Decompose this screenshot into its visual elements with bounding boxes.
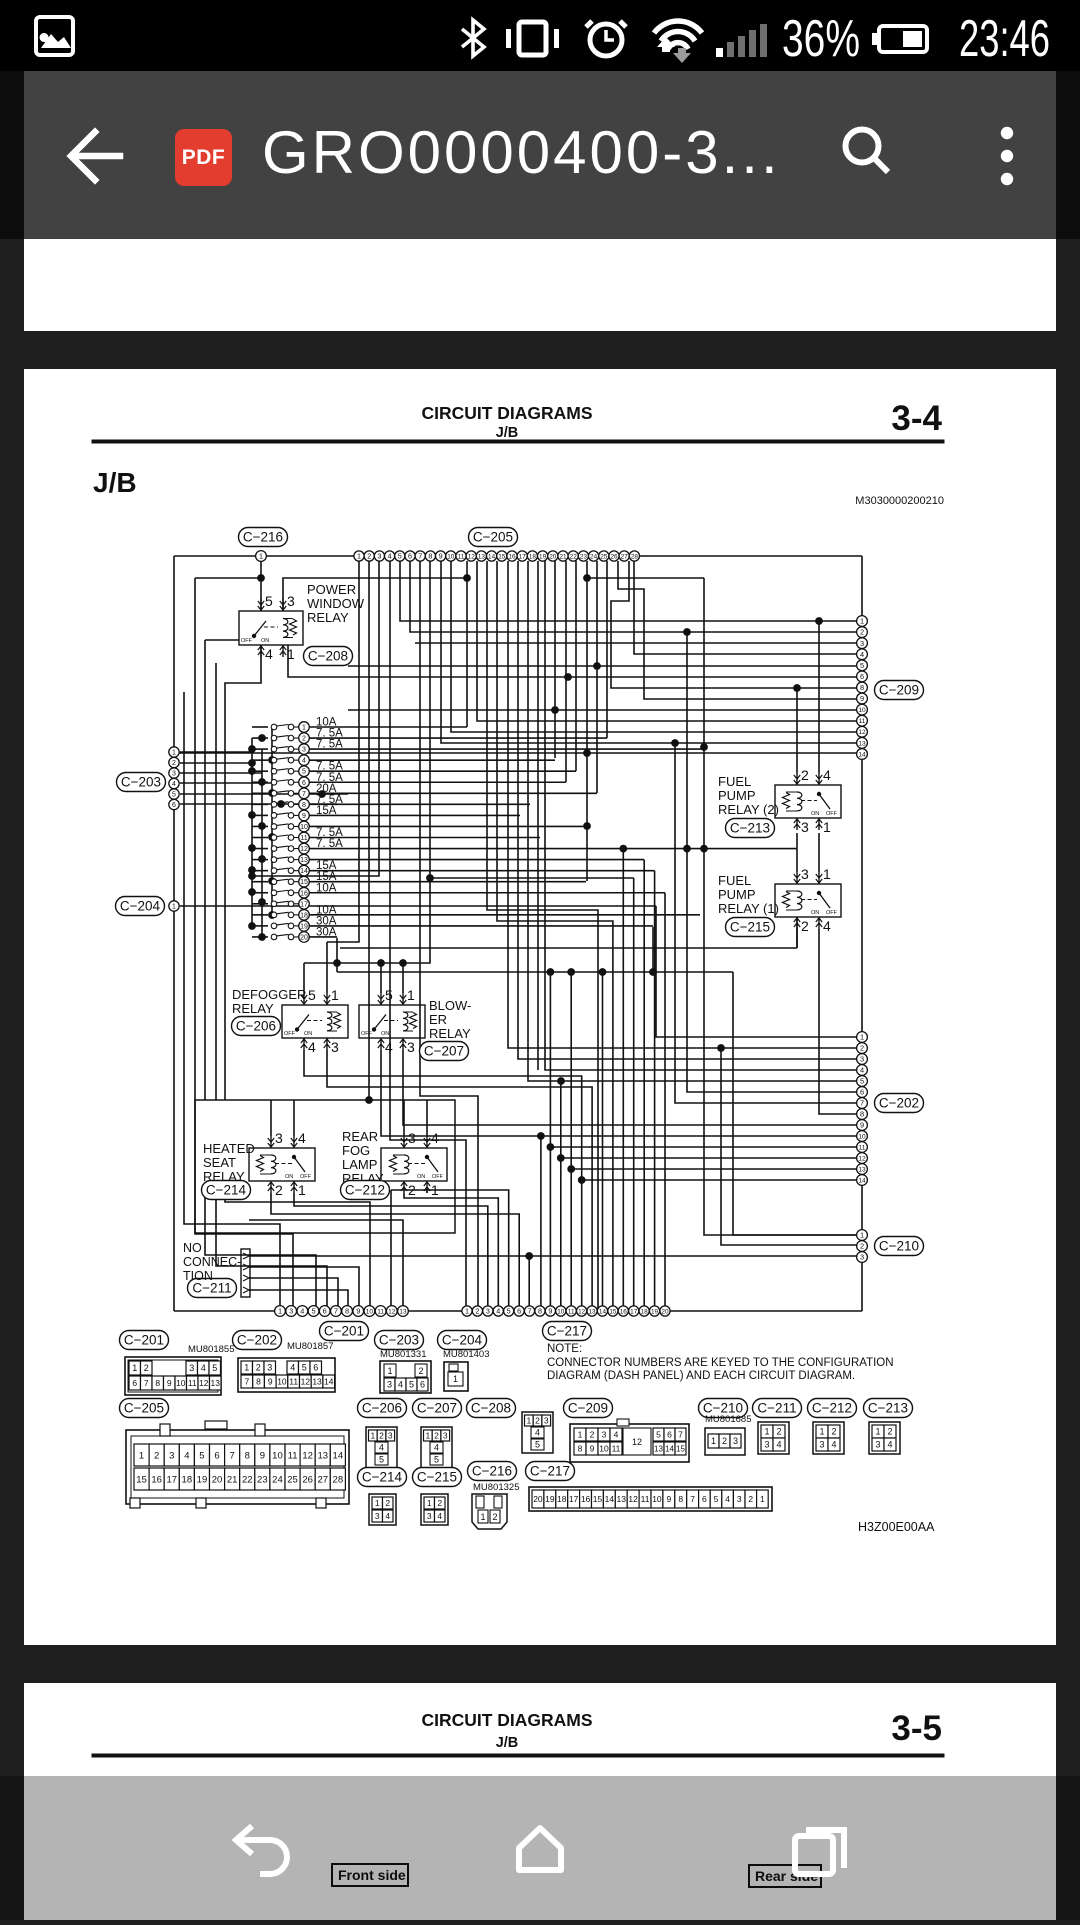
svg-text:CONNECTOR NUMBERS ARE KEYED TO: CONNECTOR NUMBERS ARE KEYED TO THE CONFI…	[547, 1357, 894, 1369]
svg-text:MU801325: MU801325	[473, 1482, 519, 1493]
svg-text:CIRCUIT DIAGRAMS: CIRCUIT DIAGRAMS	[421, 403, 592, 423]
svg-text:C−206: C−206	[236, 1019, 276, 1034]
svg-text:17: 17	[166, 1474, 177, 1485]
svg-text:OFF: OFF	[826, 910, 838, 916]
svg-text:8: 8	[302, 802, 306, 809]
svg-text:8: 8	[428, 552, 432, 561]
svg-text:4: 4	[860, 1066, 864, 1075]
svg-text:15: 15	[593, 1494, 603, 1504]
svg-text:10: 10	[300, 824, 308, 831]
svg-text:10: 10	[447, 553, 455, 560]
svg-text:13: 13	[858, 740, 866, 747]
svg-text:C−217: C−217	[530, 1464, 570, 1479]
svg-text:13: 13	[617, 1494, 627, 1504]
svg-text:4: 4	[887, 1440, 892, 1450]
svg-text:1: 1	[357, 552, 361, 561]
svg-text:24: 24	[272, 1474, 283, 1485]
svg-text:11: 11	[641, 1494, 650, 1504]
svg-text:2: 2	[801, 767, 809, 783]
svg-text:15A: 15A	[316, 805, 337, 817]
svg-text:4: 4	[860, 650, 864, 659]
svg-text:13: 13	[478, 553, 486, 560]
svg-text:27: 27	[621, 553, 629, 560]
svg-text:3: 3	[733, 1436, 738, 1446]
svg-text:OFF: OFF	[432, 1174, 444, 1180]
svg-text:9: 9	[548, 1307, 552, 1316]
svg-text:12: 12	[858, 729, 866, 736]
svg-text:2: 2	[590, 1429, 595, 1439]
svg-text:3: 3	[860, 1253, 864, 1262]
svg-text:11: 11	[859, 1144, 866, 1151]
svg-text:15: 15	[498, 553, 506, 560]
svg-text:6: 6	[517, 1307, 521, 1316]
svg-text:1: 1	[819, 1427, 824, 1437]
svg-text:6: 6	[860, 1088, 864, 1097]
svg-text:C−202: C−202	[879, 1096, 919, 1111]
svg-text:C−212: C−212	[345, 1183, 385, 1198]
svg-text:2: 2	[801, 918, 809, 934]
svg-text:5: 5	[656, 1429, 661, 1439]
svg-text:4: 4	[434, 1443, 439, 1453]
svg-text:5: 5	[172, 792, 176, 799]
svg-text:12: 12	[468, 553, 476, 560]
svg-text:1: 1	[453, 1374, 458, 1384]
svg-text:5: 5	[212, 1363, 217, 1373]
svg-text:C−205: C−205	[473, 530, 513, 545]
svg-text:5: 5	[409, 1380, 414, 1390]
svg-text:3: 3	[388, 1430, 393, 1440]
svg-text:26: 26	[302, 1474, 313, 1485]
svg-text:MU801331: MU801331	[380, 1349, 426, 1360]
svg-text:2: 2	[434, 1430, 439, 1440]
svg-text:5: 5	[199, 1450, 204, 1461]
svg-text:8: 8	[538, 1307, 542, 1316]
svg-text:3: 3	[189, 1363, 194, 1373]
svg-text:7. 5A: 7. 5A	[316, 739, 343, 751]
svg-text:6: 6	[302, 780, 306, 787]
svg-text:9: 9	[666, 1494, 671, 1504]
svg-text:10: 10	[599, 1443, 609, 1453]
svg-text:7: 7	[334, 1307, 338, 1316]
svg-text:13: 13	[312, 1376, 322, 1386]
svg-text:1: 1	[331, 987, 339, 1003]
svg-text:15: 15	[676, 1444, 685, 1453]
svg-text:C−209: C−209	[879, 683, 919, 698]
svg-text:6: 6	[323, 1307, 327, 1316]
svg-text:11: 11	[859, 718, 866, 725]
svg-text:9: 9	[860, 1121, 864, 1130]
svg-text:11: 11	[377, 1308, 384, 1315]
svg-text:1: 1	[278, 1307, 282, 1316]
svg-text:13: 13	[399, 1308, 407, 1315]
svg-text:12: 12	[578, 1308, 586, 1315]
svg-text:25: 25	[287, 1474, 298, 1485]
svg-text:14: 14	[665, 1444, 674, 1453]
svg-text:1: 1	[465, 1307, 469, 1316]
svg-text:13: 13	[300, 857, 308, 864]
svg-text:FOG: FOG	[342, 1143, 370, 1158]
svg-text:10: 10	[557, 1308, 565, 1315]
svg-text:3: 3	[287, 593, 295, 609]
svg-text:10: 10	[272, 1450, 283, 1461]
svg-text:OFF: OFF	[284, 1031, 296, 1037]
svg-text:18: 18	[529, 553, 537, 560]
svg-text:5: 5	[302, 1363, 307, 1373]
svg-text:C−215: C−215	[730, 920, 770, 935]
svg-text:6: 6	[420, 1380, 425, 1390]
svg-text:17: 17	[300, 901, 308, 908]
svg-text:1: 1	[760, 1494, 765, 1504]
svg-text:4: 4	[184, 1450, 189, 1461]
svg-text:23: 23	[257, 1474, 268, 1485]
svg-text:1: 1	[298, 1182, 306, 1198]
svg-text:2: 2	[776, 1427, 781, 1437]
svg-text:5: 5	[379, 1455, 384, 1465]
svg-text:H3Z00E00AA: H3Z00E00AA	[858, 1520, 935, 1534]
svg-text:3: 3	[764, 1440, 769, 1450]
svg-text:5: 5	[507, 1307, 511, 1316]
svg-text:10: 10	[652, 1494, 662, 1504]
svg-text:12: 12	[301, 1376, 311, 1386]
svg-text:1: 1	[132, 1363, 137, 1373]
svg-text:ON: ON	[811, 811, 819, 817]
svg-text:20: 20	[661, 1308, 669, 1315]
svg-text:14: 14	[858, 1177, 866, 1184]
svg-text:28: 28	[333, 1474, 344, 1485]
svg-text:NO: NO	[183, 1241, 202, 1255]
svg-text:C−211: C−211	[757, 1401, 796, 1416]
svg-text:MU801685: MU801685	[705, 1414, 751, 1425]
svg-text:C−201: C−201	[324, 1324, 364, 1339]
svg-text:16: 16	[508, 553, 516, 560]
svg-text:8: 8	[245, 1450, 250, 1461]
svg-text:DIAGRAM (DASH PANEL) AND EACH: DIAGRAM (DASH PANEL) AND EACH CIRCUIT DI…	[547, 1370, 855, 1382]
svg-text:19: 19	[545, 1494, 555, 1504]
svg-text:10: 10	[366, 1308, 374, 1315]
svg-text:1: 1	[431, 1182, 439, 1198]
svg-text:11: 11	[289, 1376, 298, 1386]
svg-text:8: 8	[578, 1443, 583, 1453]
svg-text:4: 4	[265, 646, 273, 662]
svg-text:M3030000200210: M3030000200210	[855, 495, 944, 507]
svg-text:ON: ON	[417, 1174, 425, 1180]
svg-text:RELAY: RELAY	[232, 1001, 274, 1016]
svg-text:5: 5	[265, 593, 273, 609]
svg-text:C−208: C−208	[471, 1401, 511, 1416]
svg-text:3: 3	[267, 1363, 272, 1373]
svg-text:C−208: C−208	[308, 649, 348, 664]
svg-text:2: 2	[408, 1182, 416, 1198]
svg-text:11: 11	[188, 1378, 197, 1388]
svg-text:2: 2	[860, 1242, 864, 1251]
svg-text:27: 27	[317, 1474, 328, 1485]
svg-text:2: 2	[748, 1494, 753, 1504]
svg-text:C−209: C−209	[568, 1401, 608, 1416]
svg-text:4: 4	[823, 918, 831, 934]
svg-text:3: 3	[172, 771, 176, 778]
svg-text:9: 9	[268, 1376, 273, 1386]
svg-text:C−206: C−206	[362, 1401, 402, 1416]
svg-text:4: 4	[290, 1363, 295, 1373]
svg-text:5: 5	[385, 987, 393, 1003]
svg-text:20: 20	[533, 1494, 543, 1504]
svg-text:3: 3	[443, 1430, 448, 1440]
svg-text:RELAY (1): RELAY (1)	[718, 901, 779, 916]
svg-text:11: 11	[300, 835, 307, 842]
svg-text:14: 14	[300, 868, 308, 875]
svg-text:8: 8	[860, 1110, 864, 1119]
svg-text:C−204: C−204	[442, 1333, 483, 1348]
svg-text:11: 11	[288, 1450, 298, 1461]
svg-text:21: 21	[559, 553, 567, 560]
svg-text:5: 5	[535, 1440, 540, 1450]
svg-text:ER: ER	[429, 1012, 447, 1027]
svg-text:C−215: C−215	[417, 1470, 457, 1485]
svg-text:4: 4	[398, 1380, 403, 1390]
svg-text:4: 4	[823, 767, 831, 783]
svg-text:C−207: C−207	[424, 1044, 464, 1059]
svg-text:1: 1	[526, 1415, 531, 1425]
svg-text:12: 12	[199, 1378, 209, 1388]
svg-text:C−203: C−203	[121, 775, 161, 790]
svg-text:ON: ON	[811, 910, 819, 916]
svg-text:4: 4	[776, 1440, 781, 1450]
svg-text:C−204: C−204	[120, 899, 161, 914]
svg-text:6: 6	[702, 1494, 707, 1504]
svg-text:MU801857: MU801857	[287, 1341, 333, 1352]
svg-text:10: 10	[277, 1376, 287, 1386]
svg-text:3: 3	[407, 1039, 415, 1055]
svg-text:3: 3	[377, 552, 381, 561]
svg-text:2: 2	[302, 736, 306, 743]
svg-text:3: 3	[427, 1511, 432, 1521]
svg-text:C−216: C−216	[243, 530, 283, 545]
svg-text:4: 4	[388, 552, 392, 561]
svg-text:5: 5	[311, 1307, 315, 1316]
svg-text:7: 7	[144, 1378, 149, 1388]
svg-text:4: 4	[302, 758, 306, 765]
svg-text:OFF: OFF	[300, 1174, 312, 1180]
svg-text:10: 10	[858, 1133, 866, 1140]
svg-text:16: 16	[581, 1494, 591, 1504]
svg-text:4: 4	[437, 1511, 442, 1521]
svg-text:5: 5	[398, 552, 402, 561]
svg-text:14: 14	[858, 751, 866, 758]
svg-text:1: 1	[860, 1231, 864, 1240]
svg-text:20: 20	[212, 1474, 223, 1485]
svg-text:C−213: C−213	[868, 1401, 908, 1416]
svg-text:26: 26	[610, 553, 618, 560]
svg-text:C−214: C−214	[362, 1470, 403, 1485]
svg-text:5: 5	[860, 661, 864, 670]
svg-text:C−216: C−216	[472, 1464, 512, 1479]
svg-text:MU801855: MU801855	[188, 1344, 234, 1355]
svg-text:2: 2	[418, 1366, 423, 1376]
svg-text:7: 7	[230, 1450, 235, 1461]
svg-text:2: 2	[437, 1498, 442, 1508]
svg-text:7: 7	[418, 552, 422, 561]
svg-text:3: 3	[801, 819, 809, 835]
svg-text:3: 3	[544, 1415, 549, 1425]
svg-text:14: 14	[324, 1376, 334, 1386]
svg-text:8: 8	[860, 683, 864, 692]
svg-text:3: 3	[289, 1307, 293, 1316]
svg-text:C−205: C−205	[124, 1401, 164, 1416]
svg-text:PUMP: PUMP	[718, 887, 756, 902]
svg-text:2: 2	[887, 1427, 892, 1437]
svg-text:5: 5	[860, 1077, 864, 1086]
svg-text:36%: 36%	[782, 10, 860, 68]
svg-text:18: 18	[557, 1494, 567, 1504]
svg-text:1: 1	[139, 1450, 144, 1461]
svg-text:7: 7	[860, 1099, 864, 1108]
svg-text:9: 9	[302, 813, 306, 820]
svg-text:C−203: C−203	[379, 1333, 419, 1348]
svg-text:2: 2	[172, 760, 176, 767]
svg-text:14: 14	[333, 1450, 344, 1461]
svg-text:3: 3	[169, 1450, 174, 1461]
svg-text:9: 9	[439, 552, 443, 561]
svg-text:5: 5	[302, 769, 306, 776]
svg-text:25: 25	[600, 553, 608, 560]
svg-text:RELAY (2): RELAY (2)	[718, 802, 779, 817]
svg-text:C−217: C−217	[547, 1324, 587, 1339]
svg-text:3: 3	[275, 1130, 283, 1146]
svg-text:21: 21	[227, 1474, 238, 1485]
svg-text:J/B: J/B	[496, 425, 519, 441]
svg-text:1: 1	[875, 1427, 880, 1437]
svg-text:9: 9	[590, 1443, 595, 1453]
svg-text:4: 4	[300, 1307, 304, 1316]
svg-text:1: 1	[480, 1512, 485, 1522]
svg-text:1: 1	[711, 1436, 716, 1446]
svg-text:1: 1	[427, 1498, 432, 1508]
svg-text:22: 22	[242, 1474, 253, 1485]
svg-text:18: 18	[182, 1474, 193, 1485]
svg-text:3: 3	[331, 1039, 339, 1055]
svg-text:2: 2	[256, 1363, 261, 1373]
svg-text:NOTE:: NOTE:	[547, 1343, 582, 1355]
svg-text:2: 2	[475, 1307, 479, 1316]
svg-text:1: 1	[375, 1498, 380, 1508]
svg-text:2: 2	[154, 1450, 159, 1461]
svg-text:1: 1	[302, 725, 306, 732]
svg-text:2: 2	[275, 1182, 283, 1198]
svg-text:20: 20	[300, 934, 308, 941]
svg-text:3-5: 3-5	[891, 1709, 942, 1748]
svg-text:14: 14	[488, 553, 496, 560]
svg-text:24: 24	[590, 553, 598, 560]
svg-text:BLOW-: BLOW-	[429, 998, 471, 1013]
svg-text:3: 3	[737, 1494, 742, 1504]
svg-text:12: 12	[300, 846, 308, 853]
svg-text:OFF: OFF	[361, 1031, 373, 1037]
svg-text:16: 16	[300, 890, 308, 897]
svg-text:POWER: POWER	[307, 582, 356, 597]
svg-text:28: 28	[631, 553, 639, 560]
svg-text:14: 14	[605, 1494, 615, 1504]
svg-text:5: 5	[308, 987, 316, 1003]
svg-text:7: 7	[244, 1376, 249, 1386]
svg-text:10A: 10A	[316, 882, 337, 894]
svg-text:3: 3	[302, 747, 306, 754]
svg-text:20: 20	[549, 553, 557, 560]
svg-text:11: 11	[612, 1443, 621, 1453]
svg-text:6: 6	[313, 1363, 318, 1373]
svg-text:12: 12	[628, 1494, 638, 1504]
svg-text:5: 5	[434, 1455, 439, 1465]
svg-text:1: 1	[407, 987, 415, 1003]
svg-text:15: 15	[609, 1308, 617, 1315]
svg-text:16: 16	[620, 1308, 628, 1315]
svg-text:1: 1	[823, 866, 831, 882]
svg-text:7: 7	[302, 791, 306, 798]
svg-text:3: 3	[860, 1055, 864, 1064]
svg-text:7: 7	[690, 1494, 695, 1504]
svg-text:3: 3	[387, 1380, 392, 1390]
svg-text:4: 4	[431, 1130, 439, 1146]
svg-text:1: 1	[425, 1430, 430, 1440]
svg-text:2: 2	[492, 1512, 497, 1522]
svg-text:10: 10	[176, 1378, 186, 1388]
svg-text:3: 3	[860, 639, 864, 648]
svg-text:10: 10	[858, 707, 866, 714]
svg-text:1: 1	[259, 552, 263, 561]
svg-text:4: 4	[379, 1443, 384, 1453]
svg-text:2: 2	[860, 1044, 864, 1053]
svg-text:13: 13	[588, 1308, 596, 1315]
svg-text:4: 4	[725, 1494, 730, 1504]
svg-text:12: 12	[858, 1155, 866, 1162]
svg-text:6: 6	[172, 802, 176, 809]
svg-text:4: 4	[385, 1039, 393, 1055]
svg-text:1: 1	[172, 904, 176, 911]
svg-text:17: 17	[569, 1494, 579, 1504]
svg-text:C−207: C−207	[417, 1401, 457, 1416]
svg-text:ON: ON	[261, 638, 269, 644]
svg-text:12: 12	[632, 1437, 642, 1447]
svg-text:4: 4	[201, 1363, 206, 1373]
svg-text:17: 17	[630, 1308, 638, 1315]
svg-text:LAMP: LAMP	[342, 1157, 377, 1172]
svg-text:RELAY: RELAY	[307, 610, 349, 625]
svg-text:17: 17	[519, 553, 527, 560]
svg-text:8: 8	[345, 1307, 349, 1316]
svg-text:8: 8	[155, 1378, 160, 1388]
svg-text:6: 6	[408, 552, 412, 561]
svg-text:7: 7	[528, 1307, 532, 1316]
svg-text:3: 3	[408, 1130, 416, 1146]
svg-text:4: 4	[496, 1307, 500, 1316]
svg-text:18: 18	[641, 1308, 649, 1315]
svg-text:8: 8	[678, 1494, 683, 1504]
svg-text:7. 5A: 7. 5A	[316, 838, 343, 850]
svg-text:4: 4	[385, 1511, 390, 1521]
svg-text:ON: ON	[285, 1174, 293, 1180]
svg-text:4: 4	[172, 781, 176, 788]
svg-text:19: 19	[197, 1474, 208, 1485]
svg-text:1: 1	[172, 750, 176, 757]
svg-text:13: 13	[858, 1166, 866, 1173]
svg-text:ON: ON	[381, 1031, 389, 1037]
svg-text:12: 12	[302, 1450, 313, 1461]
svg-text:FUEL: FUEL	[718, 774, 751, 789]
svg-text:13: 13	[317, 1450, 328, 1461]
svg-text:11: 11	[458, 553, 465, 560]
svg-text:19: 19	[651, 1308, 659, 1315]
svg-text:1: 1	[387, 1366, 392, 1376]
svg-text:5: 5	[714, 1494, 719, 1504]
